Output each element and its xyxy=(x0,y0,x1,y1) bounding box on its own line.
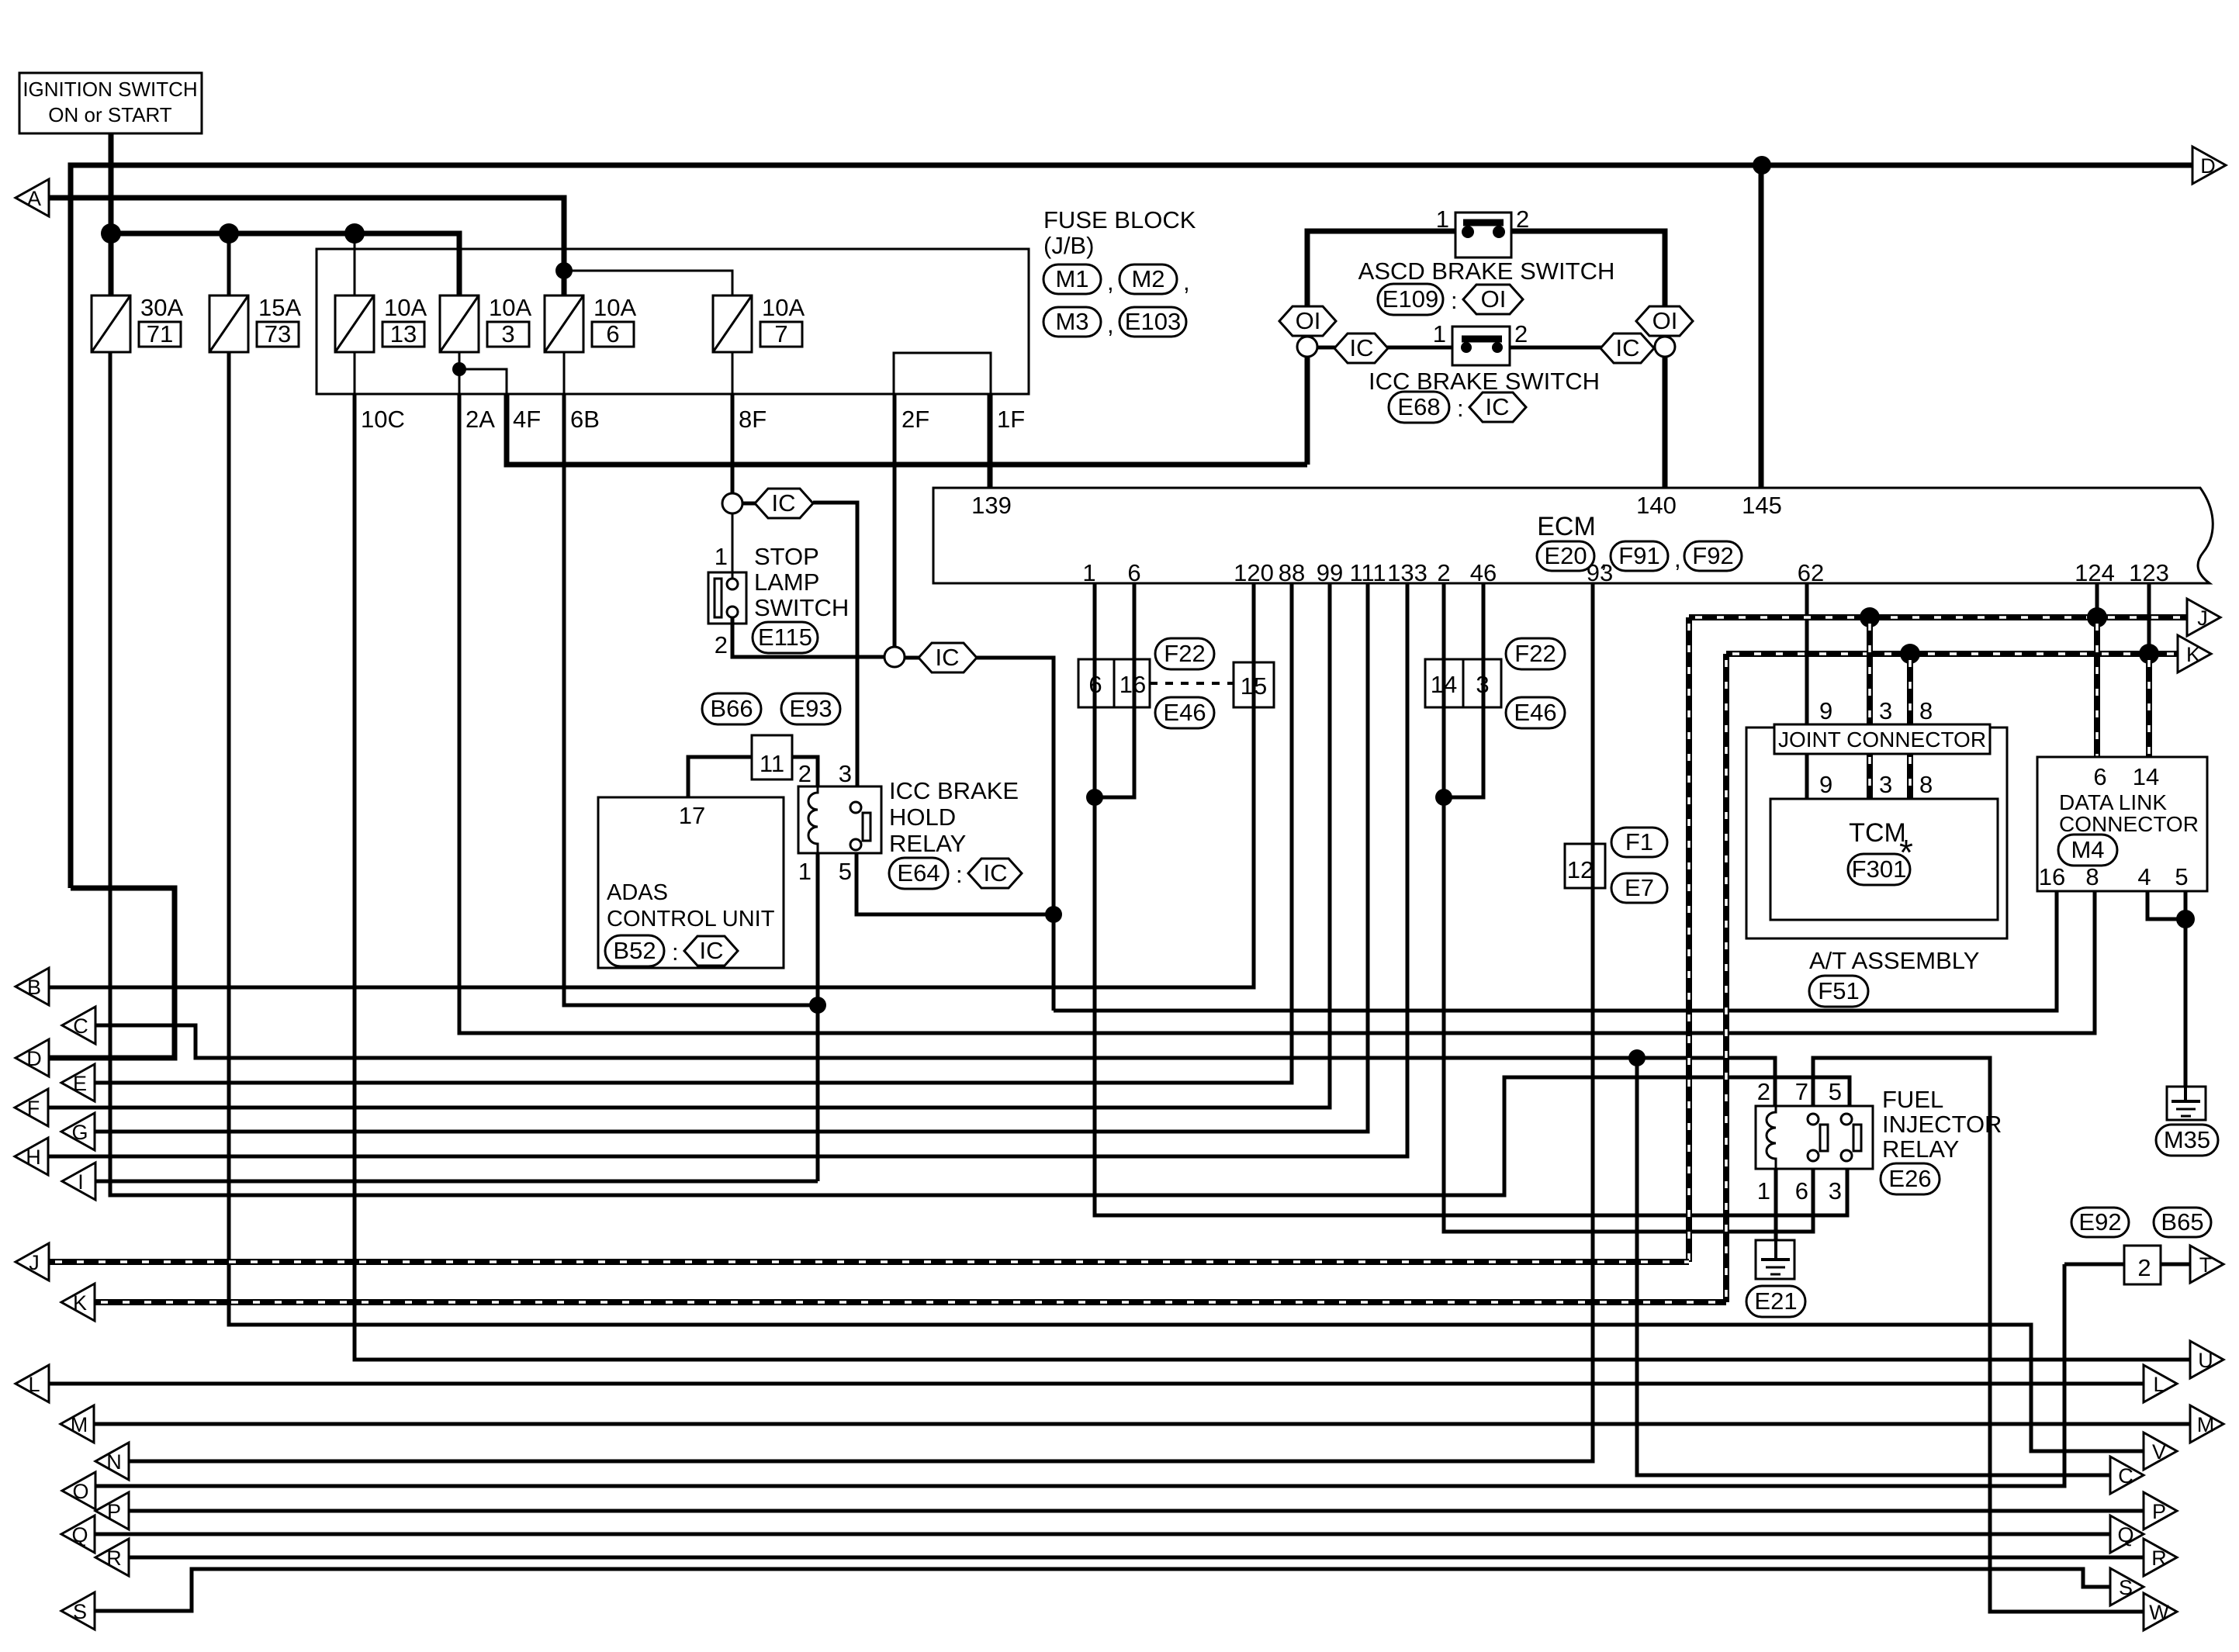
wire ECM pin99 to F xyxy=(48,583,1330,1108)
svg-text:8: 8 xyxy=(1919,697,1933,724)
svg-text:U: U xyxy=(2198,1349,2213,1372)
arrow D left xyxy=(16,1039,49,1077)
svg-text:Q: Q xyxy=(2117,1523,2133,1547)
ignition switch box xyxy=(19,73,202,133)
IC hexagon stop lamp xyxy=(742,502,757,506)
arrow W right xyxy=(2144,1593,2177,1630)
svg-text:STOP: STOP xyxy=(754,543,819,570)
node junction ICC relay pin5 feed xyxy=(1045,906,1062,923)
svg-text:5: 5 xyxy=(2175,863,2188,890)
node A-line branch to fuse7 xyxy=(555,262,573,279)
svg-text:E46: E46 xyxy=(1514,699,1556,726)
arrow Q left xyxy=(61,1515,95,1553)
svg-text:P: P xyxy=(107,1500,121,1523)
svg-text:1: 1 xyxy=(1433,320,1446,347)
svg-text:10A: 10A xyxy=(762,294,805,321)
svg-text:E103: E103 xyxy=(1125,308,1181,335)
arrow C left xyxy=(62,1007,95,1044)
svg-text:2: 2 xyxy=(1516,206,1529,233)
svg-text:OI: OI xyxy=(1652,307,1678,334)
ECM box xyxy=(933,488,2213,583)
svg-text:E26: E26 xyxy=(1888,1165,1931,1192)
svg-text:M: M xyxy=(2197,1413,2215,1436)
wire ECM pin111 to G xyxy=(95,583,1368,1132)
svg-text:14: 14 xyxy=(2133,763,2159,790)
wire K shield left vertical xyxy=(1723,654,1729,1302)
wire IC to ICC relay pin3 xyxy=(813,503,857,786)
node pins 1/6 merge xyxy=(1086,789,1103,806)
wire 10C to U xyxy=(355,394,2190,1360)
svg-text:ICC BRAKE: ICC BRAKE xyxy=(889,777,1019,804)
node K dot joint8 xyxy=(1900,644,1920,664)
wire IGN vertical drop xyxy=(109,133,114,295)
svg-text:E20: E20 xyxy=(1544,542,1587,569)
svg-text:G: G xyxy=(71,1121,88,1144)
ECM bottom pin labels xyxy=(1082,559,2168,586)
node circle left xyxy=(1297,337,1317,357)
svg-text:3: 3 xyxy=(839,760,852,787)
svg-text:10A: 10A xyxy=(384,294,427,321)
arrow K left xyxy=(61,1284,95,1321)
wire DLC pin4 jog xyxy=(2147,891,2185,919)
svg-text:(J/B): (J/B) xyxy=(1043,232,1094,259)
svg-text:E92: E92 xyxy=(2078,1208,2121,1236)
node pin1 / 6B junction xyxy=(809,997,826,1014)
svg-text:99: 99 xyxy=(1317,559,1343,586)
svg-text:J: J xyxy=(29,1251,40,1274)
svg-text:RELAY: RELAY xyxy=(889,830,966,857)
svg-text:J: J xyxy=(2197,607,2208,630)
svg-text:A/T ASSEMBLY: A/T ASSEMBLY xyxy=(1809,947,1979,974)
arrow S right xyxy=(2110,1568,2144,1605)
svg-text:N: N xyxy=(106,1450,122,1474)
wire C branch to right C arrow xyxy=(1637,1058,2110,1475)
wire 8F to stop lamp circle xyxy=(731,394,735,493)
E46 oval lower left xyxy=(1155,697,1214,728)
arrow L right xyxy=(2144,1365,2177,1402)
node open circle 2F xyxy=(884,647,905,667)
wire C main line xyxy=(95,1025,1775,1106)
wire D left portion xyxy=(49,888,175,1058)
svg-text:8F: 8F xyxy=(739,406,767,433)
wire IGN bus xyxy=(111,233,459,295)
svg-text:TCM: TCM xyxy=(1849,818,1906,848)
svg-text:2: 2 xyxy=(715,631,728,658)
svg-text:OI: OI xyxy=(1296,307,1321,334)
svg-text:1: 1 xyxy=(715,543,728,570)
svg-text:139: 139 xyxy=(971,492,1012,519)
ADAS control unit box xyxy=(598,797,784,968)
wire 15A to V xyxy=(229,352,2144,1451)
svg-text:OI: OI xyxy=(1481,285,1507,313)
wire K dot to DLC pin14 shield xyxy=(2146,654,2152,757)
svg-text:10A: 10A xyxy=(489,294,531,321)
svg-text:T: T xyxy=(2199,1253,2213,1277)
svg-text:16: 16 xyxy=(2039,863,2065,890)
svg-text:7: 7 xyxy=(774,320,787,347)
wire fuse73 feed xyxy=(227,233,231,295)
svg-text:LAMP: LAMP xyxy=(754,569,819,596)
connector box 15 xyxy=(1234,662,1274,707)
svg-text:FUEL: FUEL xyxy=(1882,1086,1943,1113)
wire joint pin3 shield to TCM xyxy=(1867,754,1873,799)
svg-text:Q: Q xyxy=(71,1523,88,1547)
svg-text:11: 11 xyxy=(760,750,784,777)
svg-text:88: 88 xyxy=(1279,559,1305,586)
ECM top pin labels xyxy=(971,492,1782,519)
node DLC 4/5 dot xyxy=(2176,910,2195,928)
node bus dot f71 xyxy=(101,223,121,244)
svg-text:4: 4 xyxy=(2137,863,2151,890)
wire ECM pin120 to B xyxy=(49,583,1254,987)
svg-text:,: , xyxy=(1107,268,1114,295)
svg-text:133: 133 xyxy=(1387,559,1427,586)
B66 connector oval xyxy=(702,693,761,724)
wire K shield bottom horizontal xyxy=(95,1299,1726,1305)
svg-text:M35: M35 xyxy=(2164,1126,2210,1153)
fuse F6 10A xyxy=(545,294,636,352)
svg-text:145: 145 xyxy=(1742,492,1782,519)
svg-text:1: 1 xyxy=(1757,1177,1770,1204)
wire O line to connector 2 / T xyxy=(95,1264,2064,1486)
svg-text:2A: 2A xyxy=(465,406,495,433)
wire to DLC pin16 xyxy=(1054,891,2057,1011)
svg-text:3: 3 xyxy=(1476,671,1489,698)
svg-text:DATA LINK: DATA LINK xyxy=(2059,790,2167,814)
wire DLC pin5 to M35 xyxy=(2184,891,2188,1087)
svg-text:JOINT CONNECTOR: JOINT CONNECTOR xyxy=(1778,728,1986,752)
ASCD brake switch xyxy=(1358,206,1615,315)
svg-text:3: 3 xyxy=(1879,697,1892,724)
wire ICC relay pin5 xyxy=(856,853,1054,914)
ECM name and connectors xyxy=(1537,512,1742,572)
node bus dot f73 xyxy=(219,223,239,244)
wire ECM pin46 vertical xyxy=(1444,583,1483,797)
svg-text:17: 17 xyxy=(679,802,705,829)
svg-text:30A: 30A xyxy=(140,294,183,321)
node bus dot f13 xyxy=(344,223,365,244)
svg-text:124: 124 xyxy=(2075,559,2115,586)
wire ECM pin145 vertical xyxy=(1759,165,1764,488)
svg-text:R: R xyxy=(106,1547,122,1570)
node pins 2/46 merge xyxy=(1435,789,1452,806)
wire J shield right horizontal xyxy=(1689,614,2187,620)
wire J dot to DLC pin6 shield xyxy=(2094,617,2100,757)
svg-text:E: E xyxy=(73,1072,87,1095)
fuse block label xyxy=(1043,206,1196,338)
svg-text:1: 1 xyxy=(1082,559,1095,586)
svg-text:M: M xyxy=(71,1413,88,1436)
svg-text:16: 16 xyxy=(1119,671,1146,698)
svg-text:111: 111 xyxy=(1349,559,1386,586)
svg-text:73: 73 xyxy=(265,320,291,347)
svg-text:2: 2 xyxy=(1514,320,1528,347)
arrow U right xyxy=(2190,1341,2223,1378)
wire K shield right horizontal xyxy=(1726,651,2178,657)
svg-text:5: 5 xyxy=(1829,1078,1842,1105)
dashed link to 15 box xyxy=(1150,682,1234,685)
svg-text:IGNITION SWITCH: IGNITION SWITCH xyxy=(22,78,197,101)
svg-text:3: 3 xyxy=(1879,771,1892,798)
svg-text:E46: E46 xyxy=(1163,699,1206,726)
arrow J left xyxy=(16,1243,49,1280)
svg-text:9: 9 xyxy=(1819,697,1832,724)
svg-text:71: 71 xyxy=(147,320,173,347)
svg-text::: : xyxy=(672,938,679,966)
wire 4F line to ICC circle xyxy=(507,394,1307,465)
svg-text:6: 6 xyxy=(1795,1177,1808,1204)
svg-text:7: 7 xyxy=(1795,1078,1808,1105)
svg-text:2: 2 xyxy=(798,760,812,787)
wire ECM pin62 to joint connector 9 xyxy=(1805,583,1809,799)
svg-text:W: W xyxy=(2149,1601,2169,1624)
svg-text:IC: IC xyxy=(984,859,1008,886)
svg-text:120: 120 xyxy=(1234,559,1274,586)
node J dot joint3 xyxy=(1860,607,1880,627)
svg-text:F22: F22 xyxy=(1164,640,1205,667)
arrow R left xyxy=(95,1539,129,1576)
svg-text:R: R xyxy=(2151,1547,2167,1570)
wire M line xyxy=(94,1422,2190,1426)
fuse F71 30A xyxy=(92,294,183,352)
svg-text:6: 6 xyxy=(1127,559,1140,586)
svg-text:3: 3 xyxy=(1829,1177,1842,1204)
svg-text:E68: E68 xyxy=(1397,393,1440,420)
svg-text:O: O xyxy=(72,1480,88,1503)
connector box 12 F1/E7 xyxy=(1565,828,1667,903)
arrow P left xyxy=(95,1492,129,1529)
svg-text:,: , xyxy=(1183,268,1190,295)
ICC brake switch xyxy=(1369,320,1600,423)
svg-text:1F: 1F xyxy=(997,406,1025,433)
arrow L left xyxy=(16,1365,49,1402)
connector box 6|16 E46/F22 xyxy=(1078,659,1150,707)
E93 connector oval xyxy=(781,693,840,724)
OI hexagon left xyxy=(1279,306,1336,336)
fuse block (J/B) outline xyxy=(317,249,1029,394)
arrow O left xyxy=(62,1472,95,1509)
IC hexagon right of ICC switch xyxy=(1601,334,1654,363)
svg-text:IC: IC xyxy=(1486,393,1510,420)
wire ECM pin124 to J dot xyxy=(2095,583,2099,617)
arrow F left xyxy=(15,1089,48,1126)
svg-text:46: 46 xyxy=(1470,559,1497,586)
IC hexagon E64 line xyxy=(905,656,921,660)
wire ECM pin133 to H xyxy=(48,583,1407,1156)
wire fuel relay pin7 to W xyxy=(1813,1058,2144,1612)
wire fuse3 output split 2A/4F xyxy=(459,352,507,394)
wire T line xyxy=(2064,1263,2190,1267)
svg-text:D: D xyxy=(26,1047,42,1070)
wire P line xyxy=(129,1509,2144,1513)
svg-text:E64: E64 xyxy=(897,859,940,886)
svg-text:5: 5 xyxy=(839,858,852,885)
svg-text:S: S xyxy=(2119,1576,2133,1599)
svg-text:12: 12 xyxy=(1567,856,1594,883)
arrow P right xyxy=(2144,1492,2177,1529)
node circle right xyxy=(1655,337,1675,357)
fuse block 2F notch xyxy=(894,353,991,394)
svg-text:123: 123 xyxy=(2129,559,2169,586)
B65 oval xyxy=(2154,1208,2211,1237)
svg-text:F92: F92 xyxy=(1692,542,1733,569)
svg-text:M3: M3 xyxy=(1055,308,1088,335)
svg-text:140: 140 xyxy=(1636,492,1677,519)
svg-text:K: K xyxy=(2186,643,2200,666)
svg-text:IC: IC xyxy=(1350,334,1374,361)
wire 2F drop xyxy=(893,394,897,647)
svg-text:CONTROL UNIT: CONTROL UNIT xyxy=(607,907,775,931)
TCM box xyxy=(1770,799,1998,920)
svg-text:IC: IC xyxy=(772,489,796,517)
svg-text:INJECTOR: INJECTOR xyxy=(1882,1111,2002,1138)
wire box11 to ADAS pin17 xyxy=(688,757,752,797)
OI hexagon right xyxy=(1636,306,1693,336)
svg-text:M1: M1 xyxy=(1055,265,1088,292)
wire S line xyxy=(95,1569,2110,1611)
svg-text:8: 8 xyxy=(1919,771,1933,798)
svg-text:C: C xyxy=(73,1014,88,1038)
fuse block column labels xyxy=(361,406,1025,433)
wire Q line xyxy=(95,1533,2110,1536)
node J dot 124 xyxy=(2087,607,2107,627)
svg-text:14: 14 xyxy=(1431,671,1457,698)
wire ASCD feed left vertical xyxy=(1307,231,1455,465)
svg-text:2: 2 xyxy=(1437,559,1450,586)
wire IC line to 1358 vertical xyxy=(977,658,1054,1011)
svg-text:B66: B66 xyxy=(710,695,753,722)
arrow S left xyxy=(61,1592,95,1630)
wire ECM pin93 to N xyxy=(129,583,1593,1461)
wire 10C drop inside block xyxy=(354,352,356,394)
ground M35 xyxy=(2156,1087,2218,1156)
svg-text:F: F xyxy=(27,1097,40,1120)
wire 6B to relay pin1 xyxy=(564,394,818,1005)
wire 2A to DLC pin8 line xyxy=(459,394,2095,1033)
svg-text:E21: E21 xyxy=(1754,1287,1797,1315)
wire ECM pin1 vertical xyxy=(1095,583,1847,1215)
svg-text:2: 2 xyxy=(2137,1254,2151,1281)
wire box11 to ICC relay pin2 xyxy=(792,757,818,786)
wire fuel relay pin1 to E21 xyxy=(1774,1169,1778,1257)
arrow C right xyxy=(2110,1457,2144,1494)
svg-text:L: L xyxy=(2153,1373,2165,1396)
svg-text:I: I xyxy=(78,1170,84,1194)
arrow I left xyxy=(62,1163,95,1200)
wire fuse13 feed xyxy=(354,233,356,295)
svg-text:D: D xyxy=(2200,154,2216,178)
stop lamp switch E115 xyxy=(708,513,849,658)
svg-text:3: 3 xyxy=(501,320,514,347)
arrow M left xyxy=(61,1405,94,1443)
svg-text:2: 2 xyxy=(1757,1078,1770,1105)
F22 oval upper left xyxy=(1155,638,1214,669)
svg-text:8: 8 xyxy=(2085,863,2099,890)
wire ICC switch row xyxy=(1317,346,1655,350)
arrow T right xyxy=(2190,1246,2223,1283)
svg-text:10A: 10A xyxy=(593,294,636,321)
svg-text:M4: M4 xyxy=(2071,836,2104,863)
node K dot 123 xyxy=(2139,644,2159,664)
wire K shield branch to joint pin8 xyxy=(1907,654,1913,728)
arrow N left xyxy=(95,1443,129,1480)
svg-text:E109: E109 xyxy=(1383,285,1438,313)
wire ECM pin88 to E xyxy=(95,583,1292,1083)
fuse F7 10A xyxy=(713,294,805,352)
svg-text:1: 1 xyxy=(798,858,812,885)
F51 oval xyxy=(1809,976,1868,1007)
svg-text:P: P xyxy=(2152,1500,2166,1523)
fuel injector relay E26 xyxy=(1756,1078,2002,1204)
svg-text:ADAS: ADAS xyxy=(607,880,668,905)
wire I line to ICC relay pin1 (drawn above) xyxy=(95,1180,818,1184)
svg-text:E115: E115 xyxy=(758,624,812,651)
svg-text:ASCD BRAKE SWITCH: ASCD BRAKE SWITCH xyxy=(1358,257,1615,285)
arrow A left xyxy=(16,179,49,216)
wire A-line to fuse 6 xyxy=(49,198,564,295)
svg-text:B65: B65 xyxy=(2161,1208,2203,1236)
svg-text:HOLD: HOLD xyxy=(889,804,956,831)
svg-text:ON or START: ON or START xyxy=(48,103,172,126)
wire J shield left vertical xyxy=(1686,617,1692,1262)
svg-text:9: 9 xyxy=(1819,771,1832,798)
wire stop lamp pin2 to 2F circle xyxy=(732,617,884,657)
IC hexagon left of ICC switch xyxy=(1334,334,1388,363)
svg-text:ECM: ECM xyxy=(1537,512,1596,541)
connector box 11 xyxy=(752,735,792,779)
joint connector label box xyxy=(1774,724,1990,754)
svg-text:15A: 15A xyxy=(258,294,301,321)
wire 1F drop to ECM 139 xyxy=(988,394,993,488)
svg-text:93: 93 xyxy=(1587,559,1613,586)
svg-text:IC: IC xyxy=(936,644,960,671)
svg-text:,: , xyxy=(1674,545,1681,572)
svg-text:13: 13 xyxy=(390,320,417,347)
svg-text:10C: 10C xyxy=(361,406,405,433)
joint connector pin labels top xyxy=(1819,697,1933,724)
svg-text:SWITCH: SWITCH xyxy=(754,594,849,621)
arrow J right xyxy=(2187,599,2220,636)
E46 oval right xyxy=(1506,697,1565,728)
svg-text:62: 62 xyxy=(1798,559,1824,586)
connector box 14|3 E46/F22 xyxy=(1425,659,1501,707)
wire D-bus top horizontal xyxy=(71,165,2192,888)
wire joint pin8 shield to TCM xyxy=(1907,754,1913,799)
arrow V right xyxy=(2144,1433,2177,1470)
svg-text:F1: F1 xyxy=(1625,828,1653,855)
svg-text:B: B xyxy=(27,976,41,999)
wire ASCD right side to 140 xyxy=(1511,231,1665,488)
svg-text:L: L xyxy=(28,1373,40,1396)
svg-text::: : xyxy=(956,861,963,888)
svg-text:,: , xyxy=(1107,311,1114,338)
arrow D right xyxy=(2192,147,2226,184)
arrow E left xyxy=(61,1064,95,1101)
node D-bus junction to ECM 145 xyxy=(1753,156,1771,175)
wire ICC relay pin1 to I-line xyxy=(816,853,820,1181)
joint connector pin labels bottom xyxy=(1819,771,1933,798)
svg-text::: : xyxy=(1457,395,1464,422)
wire 8F drop inside block xyxy=(732,352,734,394)
svg-text:F22: F22 xyxy=(1514,640,1556,667)
svg-text:6: 6 xyxy=(1088,671,1102,698)
node C branch dot xyxy=(1628,1049,1646,1066)
wire joint pin9 to TCM xyxy=(1805,754,1809,799)
svg-text:CONNECTOR: CONNECTOR xyxy=(2059,812,2199,836)
fuse F3 10A xyxy=(440,294,531,352)
svg-text:F51: F51 xyxy=(1818,977,1859,1004)
svg-text:B52: B52 xyxy=(613,937,656,964)
